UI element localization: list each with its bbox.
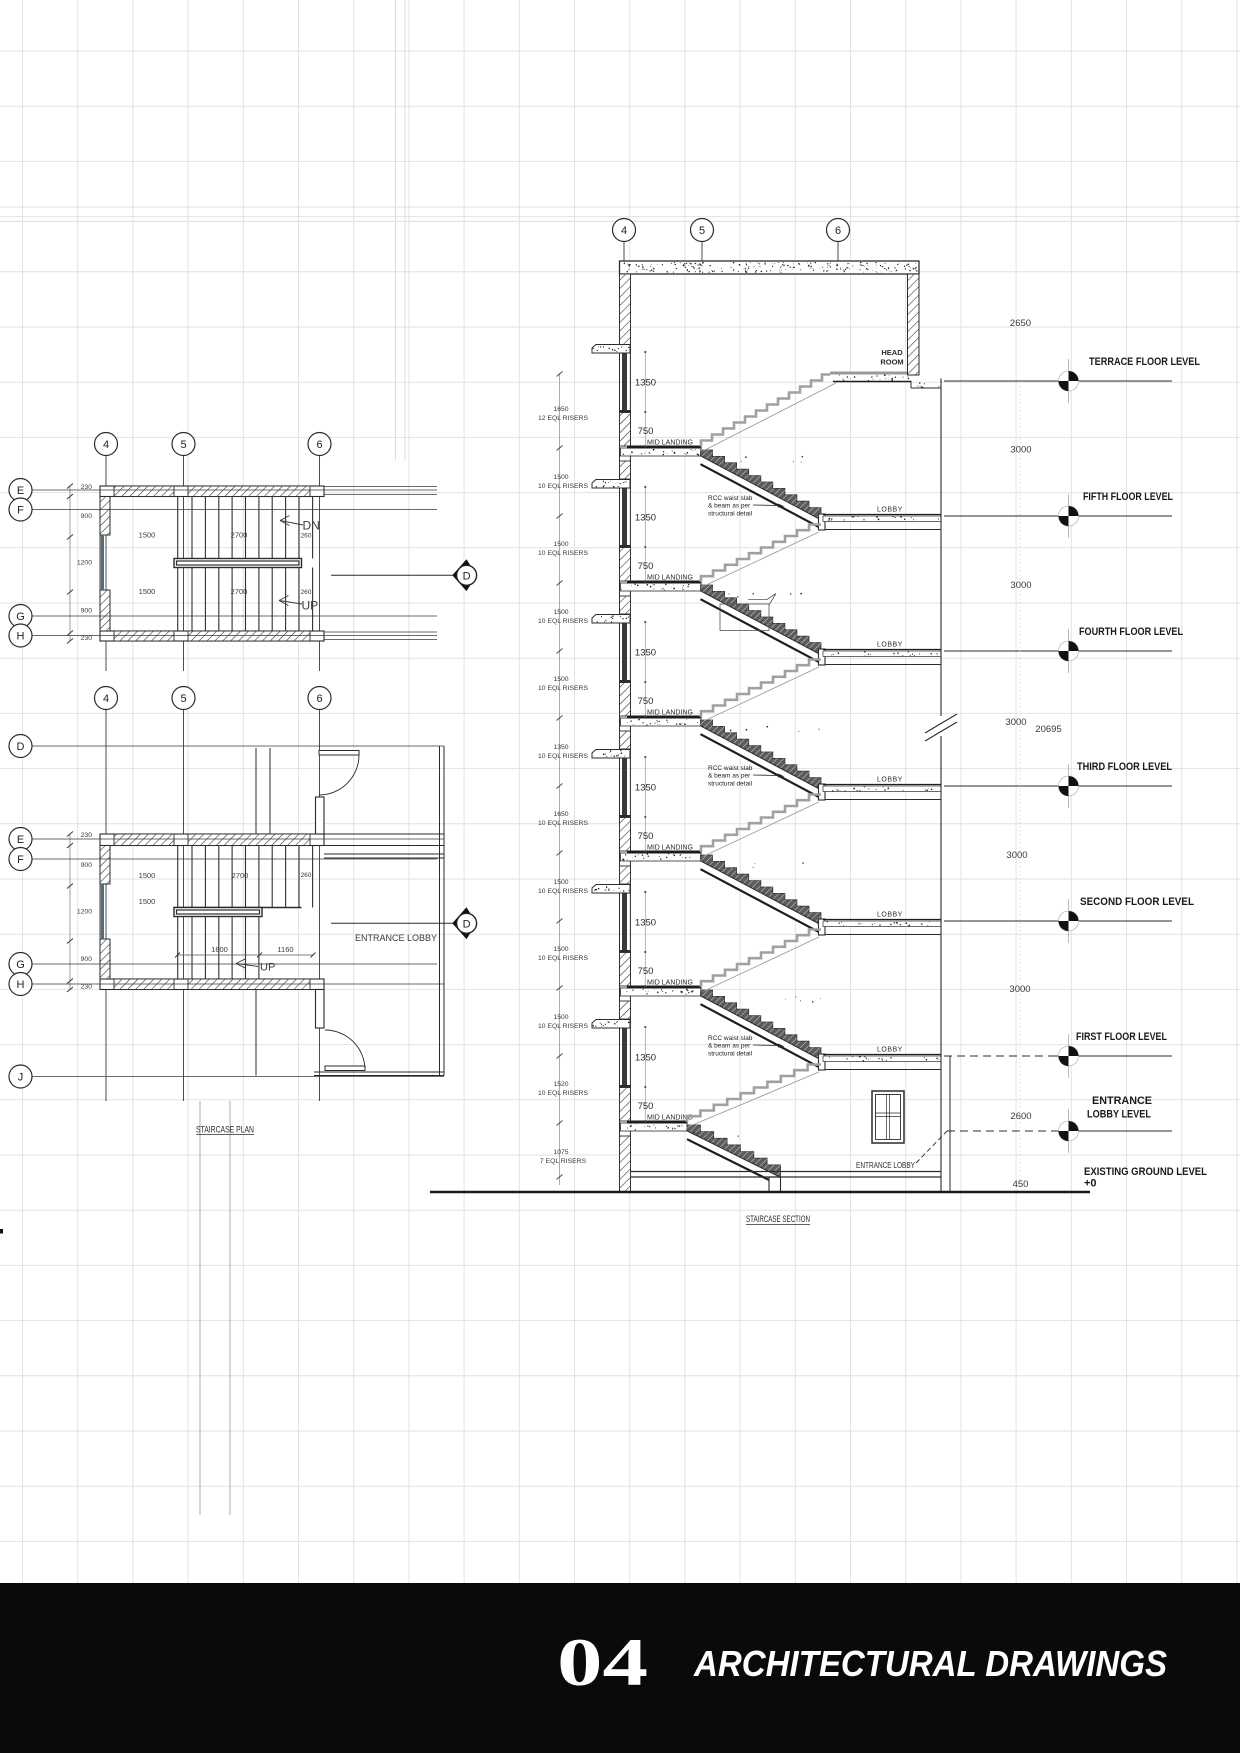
grid bubble 5: [172, 433, 195, 456]
window at floor level 651: [622, 622, 627, 680]
beam at flight base (floor 1056): [819, 1054, 826, 1070]
svg-text:UP: UP: [302, 599, 319, 613]
svg-text:20695: 20695: [1035, 724, 1061, 735]
svg-text:DN: DN: [303, 519, 320, 533]
svg-text:260: 260: [301, 533, 312, 540]
svg-text:LOBBY: LOBBY: [877, 777, 903, 784]
svg-text:1500: 1500: [139, 871, 156, 880]
svg-text:900: 900: [81, 608, 93, 615]
gray flight from floor 516 down to mid landing: [701, 525, 821, 583]
beam at flight base (floor 516): [819, 514, 826, 530]
mid landing slab at 448: [621, 448, 702, 456]
svg-text:10 EQL RISERS: 10 EQL RISERS: [538, 955, 588, 962]
svg-text:F: F: [17, 504, 24, 516]
svg-text:1350: 1350: [635, 783, 656, 794]
lobby right wall (lower plan): [439, 746, 441, 1076]
svg-text:260: 260: [301, 589, 312, 596]
svg-text:1500: 1500: [553, 946, 568, 953]
svg-text:1500: 1500: [553, 1014, 568, 1021]
svg-text:10 EQL RISERS: 10 EQL RISERS: [538, 753, 588, 760]
svg-text:1800: 1800: [211, 945, 228, 954]
svg-text:FOURTH FLOOR LEVEL: FOURTH FLOOR LEVEL: [1079, 626, 1183, 638]
row grid lines E,F,G,H (upper plan): [32, 489, 437, 491]
gray flight from floor 786 down to mid landing: [701, 795, 821, 853]
roof slab: [620, 261, 920, 274]
gray flight from floor 1056 down to mid landing: [687, 1065, 821, 1123]
row bubble E: [9, 828, 32, 851]
svg-text:RCC waist slab: RCC waist slab: [708, 765, 753, 772]
svg-text:EXISTING GROUND LEVEL: EXISTING GROUND LEVEL: [1084, 1166, 1207, 1178]
chajja (weather shade) at floor 786: [592, 750, 630, 759]
svg-text:1200: 1200: [77, 560, 92, 567]
svg-text:SECOND FLOOR LEVEL: SECOND FLOOR LEVEL: [1080, 896, 1194, 908]
svg-text:6: 6: [316, 693, 322, 705]
row bubble G: [9, 953, 32, 976]
svg-text:1500: 1500: [553, 676, 568, 683]
svg-text:LOBBY: LOBBY: [877, 1047, 903, 1054]
svg-text:structural detail: structural detail: [708, 1050, 753, 1057]
window at floor level 1056: [622, 1027, 627, 1085]
svg-text:3000: 3000: [1005, 717, 1026, 728]
svg-text:2700: 2700: [231, 531, 248, 540]
svg-text:5: 5: [699, 225, 705, 237]
row bubble F: [9, 848, 32, 871]
svg-text:D: D: [463, 570, 471, 582]
svg-text:10 EQL RISERS: 10 EQL RISERS: [538, 685, 588, 692]
svg-text:3000: 3000: [1010, 445, 1031, 456]
chajja (weather shade) at floor 516: [592, 480, 630, 489]
chajja (weather shade) at floor 921: [592, 885, 630, 894]
svg-text:1500: 1500: [553, 879, 568, 886]
window at floor level 516: [622, 487, 627, 545]
svg-text:FIFTH FLOOR LEVEL: FIFTH FLOOR LEVEL: [1083, 491, 1173, 503]
svg-text:LOBBY: LOBBY: [877, 912, 903, 919]
left running dimensions: [69, 486, 71, 641]
gray flight from floor 921 down to mid landing: [701, 930, 821, 988]
svg-text:structural detail: structural detail: [708, 510, 753, 517]
svg-text:1650: 1650: [553, 811, 568, 818]
svg-text:04: 04: [557, 1624, 648, 1700]
terrace slab notch: [910, 382, 912, 389]
row bubble H: [9, 973, 32, 996]
row bubble F: [9, 498, 32, 521]
grid bubble 6: [308, 687, 331, 710]
svg-text:H: H: [17, 979, 25, 991]
svg-text:10 EQL RISERS: 10 EQL RISERS: [538, 1090, 588, 1097]
svg-text:1350: 1350: [635, 378, 656, 389]
svg-text:structural detail: structural detail: [708, 780, 753, 787]
top wall (hatched): [100, 486, 324, 497]
svg-text:230: 230: [81, 984, 93, 991]
bottom door jamb wall: [316, 990, 325, 1029]
svg-text:E: E: [17, 485, 24, 497]
svg-text:LOBBY: LOBBY: [877, 642, 903, 649]
svg-text:3000: 3000: [1010, 580, 1031, 591]
lobby floor slab at 1056: [823, 1054, 941, 1056]
grid bubble 6: [308, 433, 331, 456]
floor level line FIFTH FLOOR LEVEL: [944, 515, 1172, 517]
svg-text:ROOM: ROOM: [880, 358, 903, 367]
svg-text:LOBBY: LOBBY: [877, 507, 903, 514]
svg-text:1500: 1500: [139, 897, 156, 906]
svg-text:2700: 2700: [232, 871, 249, 880]
mid landing slab at 988: [621, 988, 702, 996]
section left dimension line: [559, 373, 561, 1185]
svg-text:1500: 1500: [553, 609, 568, 616]
grid bubble 4: [95, 433, 118, 456]
svg-text:H: H: [17, 630, 25, 642]
svg-text:7 EQL RISERS: 7 EQL RISERS: [540, 1158, 587, 1165]
svg-text:900: 900: [81, 513, 93, 520]
window at floor level 921: [622, 892, 627, 950]
svg-text:+0: +0: [1084, 1178, 1097, 1190]
svg-text:1650: 1650: [553, 406, 568, 413]
cut stair flight from mid landing 583: [701, 585, 822, 655]
svg-text:UP: UP: [260, 962, 275, 974]
top door jamb wall: [316, 797, 325, 834]
svg-text:10 EQL RISERS: 10 EQL RISERS: [538, 820, 588, 827]
svg-text:750: 750: [638, 831, 654, 842]
svg-text:4: 4: [621, 225, 627, 237]
svg-text:1500: 1500: [553, 474, 568, 481]
svg-text:1160: 1160: [277, 945, 293, 954]
svg-text:ENTRANCE LOBBY: ENTRANCE LOBBY: [856, 1160, 915, 1170]
interior flight-height dims: [644, 352, 646, 446]
right reference line with break: [940, 379, 942, 717]
svg-text:MID LANDING: MID LANDING: [647, 980, 693, 987]
svg-text:D: D: [463, 918, 471, 930]
svg-text:E: E: [17, 834, 24, 846]
svg-text:G: G: [16, 611, 25, 623]
section marker D (lower plan): [331, 922, 453, 924]
gray flight to terrace: [701, 375, 833, 447]
mid landing slab at 718: [621, 718, 702, 726]
svg-text:F: F: [17, 854, 24, 866]
svg-text:1350: 1350: [553, 744, 568, 751]
svg-text:RCC waist slab: RCC waist slab: [708, 1035, 753, 1042]
stair treads upper flight: [178, 497, 313, 632]
window at floor level 786: [622, 757, 627, 815]
svg-text:10 EQL RISERS: 10 EQL RISERS: [538, 1023, 588, 1030]
svg-text:STAIRCASE SECTION: STAIRCASE SECTION: [746, 1214, 810, 1224]
top wall (hatched): [100, 834, 324, 846]
svg-text:1350: 1350: [635, 513, 656, 524]
svg-text:230: 230: [81, 832, 93, 839]
svg-text:1500: 1500: [553, 541, 568, 548]
svg-text:12 EQL RISERS: 12 EQL RISERS: [538, 415, 588, 422]
svg-text:1350: 1350: [635, 918, 656, 929]
footer black band: [0, 1583, 1240, 1753]
column grid lines 4,5,6: [105, 710, 107, 1102]
top door leaf and swing: [319, 751, 359, 756]
svg-text:& beam as per: & beam as per: [708, 773, 751, 780]
upper-right room walls (lower plan): [255, 748, 257, 834]
floor level line FOURTH FLOOR LEVEL: [944, 650, 1172, 652]
bottom door leaf and swing: [325, 1066, 365, 1071]
beam at flight base (floor 921): [819, 919, 826, 935]
column grid lines 4,5,6: [105, 456, 107, 672]
window elevation (entrance): [872, 1091, 904, 1143]
bottom wall (hatched): [100, 631, 324, 641]
floor level line FIRST FLOOR LEVEL: [944, 1055, 1056, 1057]
svg-text:10 EQL RISERS: 10 EQL RISERS: [538, 483, 588, 490]
floor level line SECOND FLOOR LEVEL: [944, 920, 1172, 922]
floor level line THIRD FLOOR LEVEL: [944, 785, 1172, 787]
beam at flight base (floor 786): [819, 784, 826, 800]
small ink blot at left edge: [0, 1229, 3, 1234]
right wall (hatched) head room: [908, 274, 920, 375]
chajja (weather shade) at floor 1056: [592, 1020, 630, 1029]
entrance lobby floor: [631, 1171, 941, 1173]
svg-text:J: J: [18, 1071, 24, 1083]
section marker D (upper plan): [331, 574, 453, 576]
svg-text:1520: 1520: [553, 1081, 568, 1088]
chajja (weather shade) at floor 651: [592, 615, 630, 624]
svg-text:FIRST FLOOR LEVEL: FIRST FLOOR LEVEL: [1076, 1031, 1167, 1043]
floor level line TERRACE FLOOR LEVEL: [944, 380, 1172, 382]
mid landing slab at 1123: [621, 1123, 688, 1131]
svg-text:2600: 2600: [1010, 1111, 1031, 1122]
svg-text:260: 260: [301, 872, 312, 879]
row bubble G: [9, 605, 32, 628]
stair treads lower flight: [192, 917, 259, 980]
lobby floor slab at 921: [823, 919, 941, 921]
svg-text:ENTRANCE: ENTRANCE: [1092, 1095, 1152, 1107]
svg-text:750: 750: [638, 426, 654, 437]
svg-text:ARCHITECTURAL DRAWINGS: ARCHITECTURAL DRAWINGS: [693, 1643, 1167, 1684]
grid bubble 4: [95, 687, 118, 710]
svg-text:450: 450: [1013, 1179, 1029, 1190]
left wall hatched segments: [620, 274, 631, 352]
lobby floor slab at 786: [823, 784, 941, 786]
stair treads lower flight: [192, 568, 313, 632]
lobby south wall (J): [314, 1071, 444, 1073]
lobby north wall lines: [324, 853, 444, 855]
svg-text:10 EQL RISERS: 10 EQL RISERS: [538, 888, 588, 895]
svg-text:HEAD: HEAD: [881, 348, 903, 357]
row bubble H: [9, 624, 32, 647]
svg-text:10 EQL RISERS: 10 EQL RISERS: [538, 550, 588, 557]
svg-text:THIRD FLOOR LEVEL: THIRD FLOOR LEVEL: [1077, 761, 1172, 773]
mid landing slab at 853: [621, 853, 702, 861]
lowest cut flight (7 risers): [687, 1125, 781, 1177]
stray construction lines below plan: [199, 1101, 201, 1515]
svg-text:4: 4: [103, 693, 109, 705]
central handrail: [174, 559, 302, 568]
svg-text:750: 750: [638, 966, 654, 977]
svg-text:TERRACE FLOOR LEVEL: TERRACE FLOOR LEVEL: [1089, 356, 1200, 368]
wall extension lines right of upper plan: [324, 486, 437, 488]
grid bubble 5: [172, 687, 195, 710]
svg-text:1350: 1350: [635, 648, 656, 659]
svg-text:5: 5: [180, 693, 186, 705]
svg-text:10 EQL RISERS: 10 EQL RISERS: [538, 618, 588, 625]
cut stair flight from mid landing 448: [701, 450, 822, 520]
beam at flight base (floor 651): [819, 649, 826, 665]
lower-right room wall (lower plan): [255, 990, 257, 1076]
svg-text:STAIRCASE PLAN: STAIRCASE PLAN: [196, 1125, 254, 1135]
beam below entrance floor: [769, 1177, 781, 1192]
svg-text:D: D: [17, 741, 25, 753]
lobby floor slab at 516: [823, 514, 941, 516]
svg-text:6: 6: [316, 439, 322, 451]
left wall with window: [100, 846, 110, 885]
svg-text:MID LANDING: MID LANDING: [647, 845, 693, 852]
callout box on third floor flight: [720, 604, 769, 631]
svg-text:5: 5: [180, 439, 186, 451]
svg-text:1500: 1500: [139, 531, 156, 540]
svg-text:& beam as per: & beam as per: [708, 1043, 751, 1050]
gray flight from floor 651 down to mid landing: [701, 660, 821, 718]
svg-text:230: 230: [81, 635, 93, 642]
svg-text:2700: 2700: [231, 587, 248, 596]
right exterior wall below first floor: [949, 1056, 951, 1192]
svg-text:6: 6: [835, 225, 841, 237]
svg-text:1500: 1500: [139, 587, 156, 596]
left wall outer/inner face lines: [619, 261, 621, 1192]
row bubble D: [9, 735, 32, 758]
svg-text:1350: 1350: [635, 1053, 656, 1064]
central handrail: [174, 907, 302, 909]
section column bubbles 4,5,6: [623, 242, 625, 262]
svg-text:750: 750: [638, 696, 654, 707]
row grid lines D,E,F,G,H,J (lower plan): [32, 745, 444, 747]
cut stair flight from mid landing 853: [701, 855, 822, 925]
svg-text:RCC waist slab: RCC waist slab: [708, 495, 753, 502]
phantom grid lines (scan artifacts): [395, 0, 397, 460]
svg-text:900: 900: [81, 956, 93, 963]
cut stair flight from mid landing 718: [701, 720, 822, 790]
stair treads upper flight: [178, 846, 313, 980]
svg-text:3000: 3000: [1009, 984, 1030, 995]
svg-text:& beam as per: & beam as per: [708, 503, 751, 510]
svg-text:1200: 1200: [77, 909, 92, 916]
left wall with window: [100, 497, 110, 536]
left running dimensions: [69, 834, 71, 990]
mid landing slab at 583: [621, 583, 702, 591]
svg-text:G: G: [16, 959, 25, 971]
row bubble J: [9, 1065, 32, 1088]
entrance lobby level line: [947, 1130, 1057, 1132]
svg-text:4: 4: [103, 439, 109, 451]
lobby floor slab at 651: [823, 649, 941, 651]
svg-text:3000: 3000: [1006, 850, 1027, 861]
right dimension values: [1019, 386, 1021, 1188]
row bubble E: [9, 479, 32, 502]
svg-text:1075: 1075: [553, 1149, 568, 1156]
terrace floor slab: [830, 372, 907, 375]
bottom wall (hatched): [100, 979, 324, 990]
svg-text:900: 900: [81, 862, 93, 869]
svg-text:ENTRANCE LOBBY: ENTRANCE LOBBY: [355, 933, 437, 943]
window at floor level 381: [622, 352, 627, 410]
svg-text:750: 750: [638, 561, 654, 572]
top wall extension band (lower plan): [324, 833, 444, 835]
ground line: [430, 1191, 1090, 1194]
chajja (weather shade) at floor 381: [592, 345, 630, 354]
svg-text:MID LANDING: MID LANDING: [647, 575, 693, 582]
svg-text:LOBBY LEVEL: LOBBY LEVEL: [1087, 1109, 1151, 1121]
svg-text:MID LANDING: MID LANDING: [647, 440, 693, 447]
svg-text:2650: 2650: [1010, 318, 1031, 329]
svg-text:MID LANDING: MID LANDING: [647, 710, 693, 717]
cut stair flight from mid landing 988: [701, 990, 822, 1060]
svg-text:750: 750: [638, 1101, 654, 1112]
